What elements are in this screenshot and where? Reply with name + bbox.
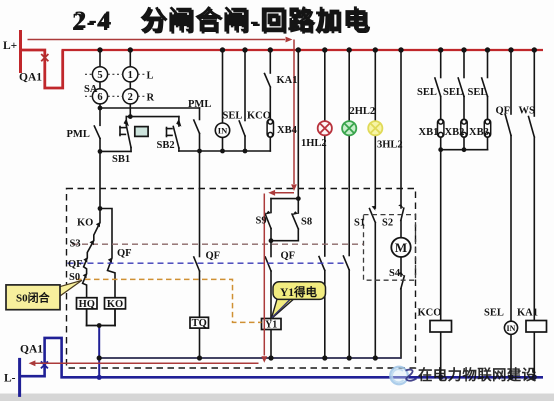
coil TQ box xyxy=(190,317,209,328)
node junction at 534.3,377.1 xyxy=(532,375,537,380)
svg-text:IN: IN xyxy=(218,125,228,135)
contact SEL col12 xyxy=(463,50,465,78)
node junction at 349.2,50 xyxy=(347,47,352,52)
svg-text:QF: QF xyxy=(117,248,132,259)
coil KA1 box xyxy=(526,321,547,333)
node junction at 100,208.5 xyxy=(98,206,103,211)
node junction at 100,151.4 xyxy=(98,149,103,154)
svg-text:KO: KO xyxy=(107,299,123,310)
node junction at 100,108 xyxy=(98,106,103,111)
button SB2 xyxy=(178,117,180,126)
svg-text:WS: WS xyxy=(519,106,536,117)
svg-text:L+: L+ xyxy=(3,40,17,52)
wire col2 SA top xyxy=(129,50,131,67)
wire SB2 bottom xyxy=(179,150,200,152)
node junction at 511,50 xyxy=(508,47,513,52)
coil HQ box xyxy=(77,298,98,309)
connector XB2 xyxy=(461,119,467,137)
svg-text:QF: QF xyxy=(281,251,296,262)
rail1 lower bus xyxy=(99,357,401,359)
bottom gray band xyxy=(0,394,554,401)
svg-text:S0闭合: S0闭合 xyxy=(16,291,51,305)
meter IN bottom xyxy=(504,321,517,334)
arrow down at rail xyxy=(261,356,267,363)
node junction at 270.3,50 xyxy=(268,47,273,52)
svg-text:分闸合闸-回路加电: 分闸合闸-回路加电 xyxy=(140,5,370,35)
svg-text:IN: IN xyxy=(507,324,516,333)
node junction at 349.2,358 xyxy=(347,355,352,360)
svg-text:SEL: SEL xyxy=(468,87,488,98)
callout Y1得电 xyxy=(271,282,325,319)
svg-text:QA1: QA1 xyxy=(20,344,43,356)
svg-text:SEL: SEL xyxy=(443,87,463,98)
svg-text:6: 6 xyxy=(97,92,102,103)
svg-text:S9: S9 xyxy=(256,216,267,227)
wire col6 S8 drop xyxy=(297,50,299,199)
node junction at 298.3,50 xyxy=(296,47,301,52)
contact KO chain in box xyxy=(83,209,100,299)
contact S8 xyxy=(297,199,299,213)
svg-text:PML: PML xyxy=(67,129,90,140)
svg-text:2: 2 xyxy=(128,92,133,103)
red flow line left jog xyxy=(275,192,294,194)
svg-text:Y1得电: Y1得电 xyxy=(280,285,318,299)
node junction at 245,151 xyxy=(243,149,248,154)
title xyxy=(72,5,372,37)
svg-text:XB3: XB3 xyxy=(469,127,489,138)
motor M xyxy=(391,238,410,257)
contact QF on Y1 column xyxy=(270,241,272,257)
arrow left jog xyxy=(268,190,275,196)
wire col3 IN xyxy=(222,50,224,123)
node junction at 199.5,151 xyxy=(197,149,202,154)
connector XB4 xyxy=(267,119,273,137)
svg-text:QF: QF xyxy=(206,251,221,262)
contact KA1 col5 xyxy=(269,50,271,73)
wire col8 2HL2 xyxy=(348,50,350,121)
svg-text:HQ: HQ xyxy=(79,299,95,310)
node junction at 222.5,50 xyxy=(220,47,225,52)
callout S0闭合 xyxy=(6,280,82,309)
arrow left bottom xyxy=(29,360,36,366)
svg-text:XB1: XB1 xyxy=(419,127,439,138)
svg-text:S3: S3 xyxy=(70,239,81,250)
svg-text:3HL2: 3HL2 xyxy=(377,140,403,151)
node junction at 534.3,50 xyxy=(532,47,537,52)
svg-text:SEL: SEL xyxy=(417,87,437,98)
red flow line top xyxy=(28,39,286,41)
svg-text:QF: QF xyxy=(68,259,83,270)
wire main bus right part xyxy=(62,49,544,51)
L+ terminal bar xyxy=(19,30,22,73)
node junction at 511,377.1 xyxy=(508,375,513,380)
svg-text:SB2: SB2 xyxy=(157,140,175,151)
svg-text:PML: PML xyxy=(188,99,211,110)
svg-text:SB1: SB1 xyxy=(112,154,130,165)
blue dashed line xyxy=(68,262,347,264)
wire Y1 to rail1 xyxy=(270,330,272,359)
svg-text:SA: SA xyxy=(84,84,98,95)
contact QF right branch to KO coil xyxy=(100,209,115,299)
node junction at 199.5,358 xyxy=(197,355,202,360)
svg-text:2-4: 2-4 xyxy=(74,7,113,34)
contact pivot wedges xyxy=(83,118,405,278)
svg-text:QF: QF xyxy=(496,106,511,117)
lamp 3HL2 xyxy=(368,121,382,135)
svg-text:S8: S8 xyxy=(301,217,312,228)
node junction at 375.3,50 xyxy=(373,47,378,52)
svg-text:M: M xyxy=(395,240,407,255)
node junction at 100,50 xyxy=(97,47,102,52)
SA contact 2 xyxy=(123,89,138,104)
wire row y108 xyxy=(100,107,200,109)
svg-text:R: R xyxy=(147,93,155,104)
contact S9 xyxy=(270,199,272,213)
contact QF col14 xyxy=(510,50,512,114)
wire col1 into box xyxy=(99,151,101,208)
wire col9 3HL2 S1 xyxy=(374,50,376,121)
svg-text:KA1: KA1 xyxy=(517,308,538,319)
node junction at 99.2,377.3 xyxy=(97,375,102,380)
wire SB1 bottom row xyxy=(100,150,131,152)
node junction at 324.8,50 xyxy=(322,47,327,52)
teal highlight rect xyxy=(135,127,148,137)
svg-text:在电力物联网建设: 在电力物联网建设 xyxy=(418,366,537,384)
node junction at 401,50 xyxy=(398,47,403,52)
orange dashed path xyxy=(76,279,262,322)
node junction at 440.7,50 xyxy=(438,47,443,52)
connector XB1 xyxy=(438,119,444,137)
L- terminal bar xyxy=(18,358,21,397)
red flow line down right xyxy=(293,40,295,185)
node junction at 130.3,50 xyxy=(128,47,133,52)
connector XB3 xyxy=(484,119,490,137)
SA dashed links xyxy=(85,74,145,96)
svg-text:1: 1 xyxy=(128,70,133,81)
node junction at 222.5,151 xyxy=(220,149,225,154)
node junction at 487.5,50 xyxy=(485,47,490,52)
SA contact 6 xyxy=(92,89,107,104)
svg-text:S4: S4 xyxy=(389,268,401,279)
contact PML left blade xyxy=(94,126,100,139)
contact WS col15 xyxy=(533,50,535,116)
node junction at 271,240.7 xyxy=(269,238,274,243)
contact PML right xyxy=(199,108,201,120)
svg-text:S1: S1 xyxy=(354,218,365,229)
SA contact 1 xyxy=(123,67,138,82)
svg-text:Y1: Y1 xyxy=(265,319,277,330)
QA1 red X mark xyxy=(41,54,48,61)
node junction at 245,50 xyxy=(242,47,247,52)
wire HQ KO join bar xyxy=(86,309,88,326)
svg-text:KO: KO xyxy=(77,218,93,229)
red flow line down to Y1 xyxy=(263,194,265,356)
node junction at 130.3,116.6 xyxy=(128,114,133,119)
svg-text:5: 5 xyxy=(97,70,102,81)
svg-text:KCO: KCO xyxy=(418,308,442,319)
inner dashed box xyxy=(364,215,416,281)
contact SEL col11 xyxy=(440,50,442,78)
svg-text:XB2: XB2 xyxy=(445,127,465,138)
node junction at 324.8,358 xyxy=(322,355,327,360)
big dashed box xyxy=(67,189,416,369)
node junction at 298.3,198.6 xyxy=(296,196,301,201)
node junction at 440.7,149.7 xyxy=(438,147,443,152)
svg-text:SEL: SEL xyxy=(484,308,504,319)
svg-text:KA1: KA1 xyxy=(277,75,298,86)
svg-text:1HL2: 1HL2 xyxy=(301,138,327,149)
node junction at 99.2,325.5 xyxy=(97,323,102,328)
QA1 lower bump + rail2 xyxy=(20,338,543,377)
svg-text:L: L xyxy=(147,71,154,82)
node junction at 464,149.7 xyxy=(462,147,467,152)
maroon dashed line xyxy=(72,243,364,245)
svg-text:KCO: KCO xyxy=(247,111,271,122)
wire col1 SA top xyxy=(99,50,101,67)
arrow right top xyxy=(286,37,293,43)
coil KCO box xyxy=(430,321,452,333)
coil KO box xyxy=(105,298,126,309)
meter IN top xyxy=(215,123,229,137)
contact SEL col13 xyxy=(487,50,489,78)
wire col10 S2 M S4 xyxy=(400,50,402,208)
wire row y151 to XB4 riser xyxy=(200,150,271,152)
wire XB join row xyxy=(441,149,488,151)
contact QF on TQ column xyxy=(199,151,201,257)
QA1 blue X mark xyxy=(41,361,48,368)
lamp 2HL2 xyxy=(342,121,356,135)
contact SEL col4 xyxy=(244,50,246,121)
svg-text:SEL: SEL xyxy=(223,111,243,122)
node junction at 464,50 xyxy=(461,47,466,52)
node junction at 375.3,358 xyxy=(373,355,378,360)
svg-text:QA1: QA1 xyxy=(19,72,42,84)
wire row y116.6 xyxy=(126,116,179,118)
coil Y1 box xyxy=(262,319,282,330)
button SB1 xyxy=(125,117,127,126)
svg-text:XB4: XB4 xyxy=(277,125,298,136)
node junction at 271,358 xyxy=(268,355,273,360)
node junction at 99.2,358 xyxy=(97,355,102,360)
SA contact 5 xyxy=(92,67,107,82)
svg-text:2HL2: 2HL2 xyxy=(350,106,376,117)
wire main bus QA1 dip part xyxy=(21,50,63,88)
node junction at 440.7,377.1 xyxy=(438,375,443,380)
wire col7 1HL2 xyxy=(324,50,326,121)
wire HQ/KO drop xyxy=(98,326,100,378)
red flow line bottom xyxy=(35,362,259,364)
arrow down into box xyxy=(291,184,297,191)
svg-text:S2: S2 xyxy=(382,218,393,229)
lamp 1HL2 xyxy=(318,121,332,135)
svg-text:L-: L- xyxy=(4,373,16,385)
svg-text:TQ: TQ xyxy=(192,318,207,329)
